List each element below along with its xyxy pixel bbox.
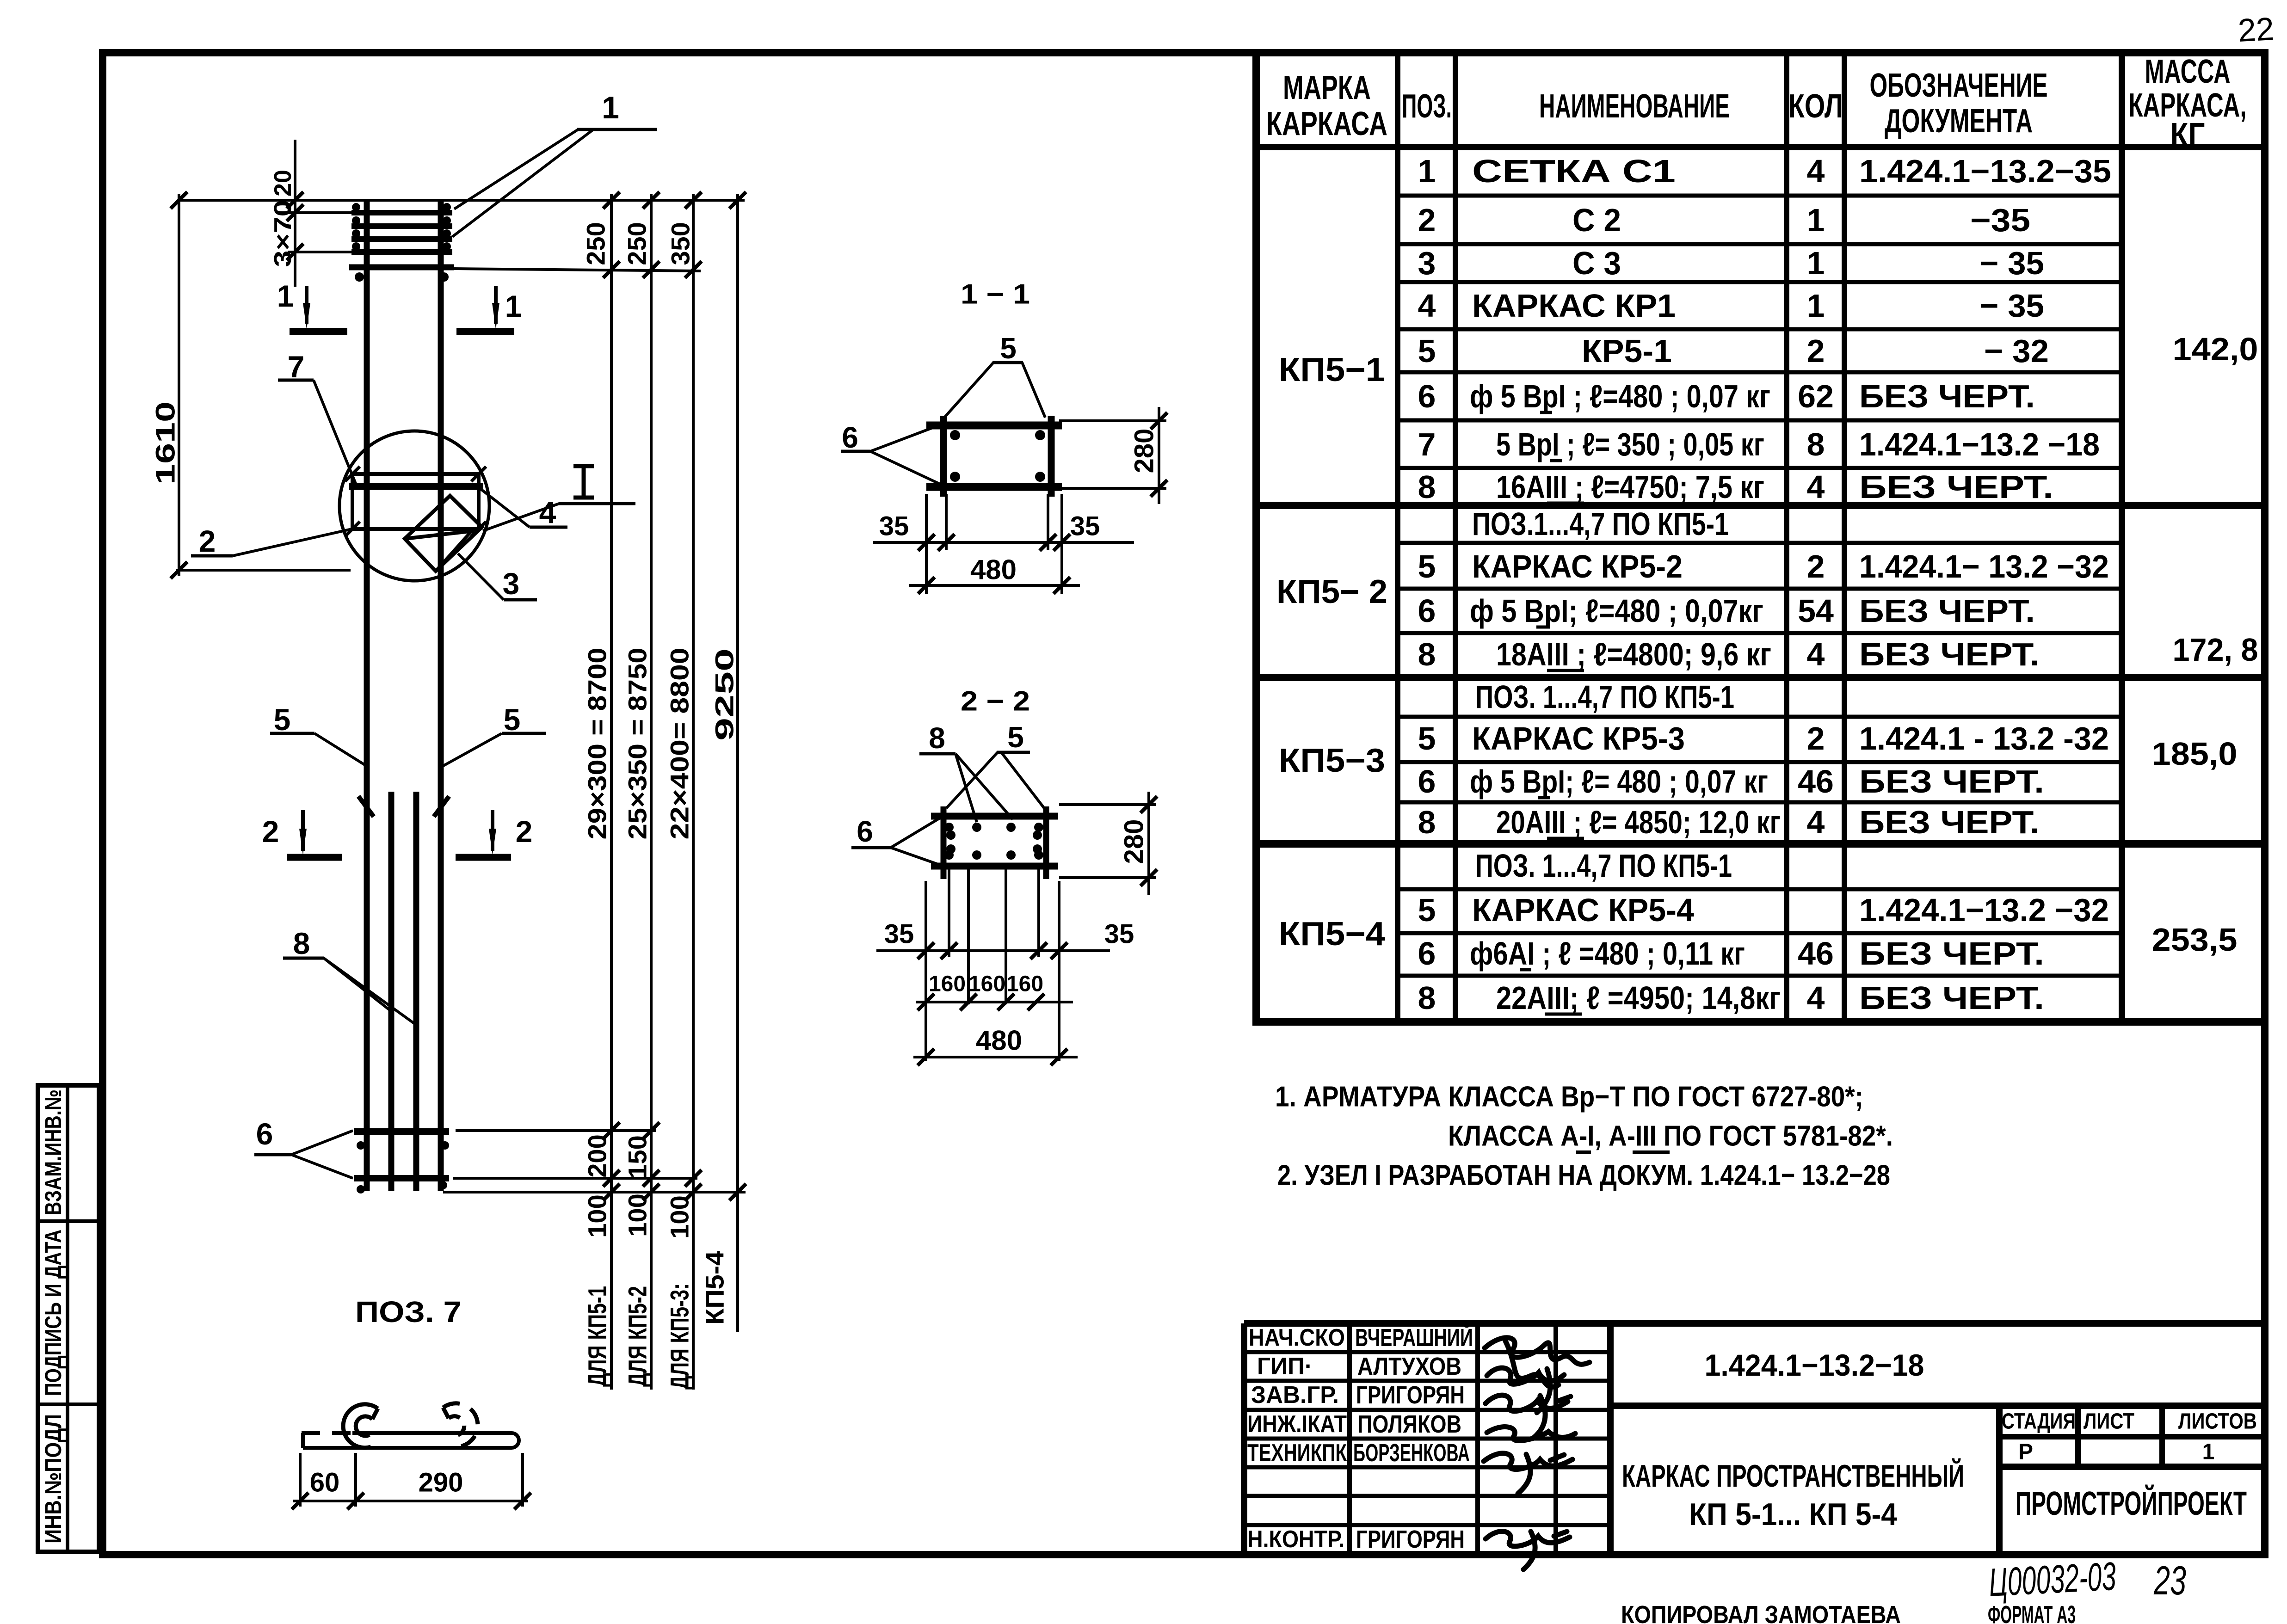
svg-text:35: 35 — [1070, 511, 1100, 541]
qty column values — [1798, 153, 1834, 1016]
svg-text:1.424.1− 13.2 −32: 1.424.1− 13.2 −32 — [1859, 548, 2109, 584]
svg-text:250: 250 — [623, 222, 652, 265]
svg-text:6: 6 — [256, 1117, 273, 1151]
first stirrup bar — [349, 265, 454, 271]
svg-text:БОРЗЕНКОВА: БОРЗЕНКОВА — [1353, 1439, 1470, 1467]
svg-text:100: 100 — [623, 1193, 652, 1236]
svg-text:2: 2 — [1807, 720, 1825, 757]
svg-text:ГИП·: ГИП· — [1257, 1353, 1313, 1380]
bottom dims of 1-1 — [873, 494, 1134, 594]
pos.7 short bar in node — [349, 483, 483, 490]
svg-text:4: 4 — [1807, 980, 1825, 1016]
svg-text:ПРОМСТРОЙПРОЕКТ: ПРОМСТРОЙПРОЕКТ — [2016, 1484, 2247, 1522]
mark column values — [1276, 351, 1387, 953]
svg-text:35: 35 — [1104, 919, 1134, 949]
svg-text:35: 35 — [879, 511, 909, 541]
bar break marks — [358, 796, 374, 817]
svg-text:8: 8 — [929, 721, 945, 755]
svg-text:2: 2 — [199, 524, 216, 558]
stirrup end dots — [355, 272, 364, 282]
underline of A-III — [1633, 1150, 1670, 1154]
svg-text:60: 60 — [310, 1468, 340, 1498]
svg-text:9250: 9250 — [710, 648, 739, 741]
svg-text:СЕТКА С1: СЕТКА С1 — [1472, 153, 1676, 189]
left margin stamp column — [38, 1085, 99, 1552]
top mesh wire end dots — [352, 203, 451, 251]
svg-text:КОЛ: КОЛ — [1788, 88, 1843, 125]
svg-text:ПОЗ. 7: ПОЗ. 7 — [355, 1295, 462, 1329]
svg-text:3: 3 — [503, 566, 520, 601]
svg-text:ИНВ.№ПОДЛ: ИНВ.№ПОДЛ — [40, 1414, 66, 1544]
svg-text:БЕЗ ЧЕРТ.: БЕЗ ЧЕРТ. — [1859, 593, 2035, 629]
svg-text:Н.КОНТР.: Н.КОНТР. — [1247, 1526, 1344, 1553]
svg-text:КГ: КГ — [2170, 117, 2205, 154]
svg-text:8: 8 — [1418, 469, 1436, 505]
dim 280 — [1059, 803, 1156, 806]
svg-text:ф 5 ВрI; ℓ= 480 ; 0,07 кг: ф 5 ВрI; ℓ= 480 ; 0,07 кг — [1470, 763, 1768, 800]
svg-text:1: 1 — [505, 289, 522, 323]
splice bar pos.8 left — [388, 792, 395, 1191]
svg-text:5: 5 — [1418, 892, 1436, 928]
section 1-1 right bar — [1048, 416, 1055, 497]
svg-text:ф 5 ВрI; ℓ=480 ; 0,07кг: ф 5 ВрI; ℓ=480 ; 0,07кг — [1470, 593, 1763, 629]
svg-text:КАРКАС ПРОСТРАНСТВЕННЫЙ: КАРКАС ПРОСТРАНСТВЕННЫЙ — [1622, 1458, 1964, 1494]
svg-text:ВЧЕРАШНИЙ: ВЧЕРАШНИЙ — [1355, 1323, 1473, 1352]
document column values — [1859, 153, 2111, 1016]
svg-text:КП5-4: КП5-4 — [700, 1251, 729, 1325]
svg-text:160: 160 — [968, 972, 1005, 997]
svg-text:253,5: 253,5 — [2152, 922, 2238, 958]
svg-text:62: 62 — [1798, 378, 1834, 414]
svg-text:КП5−1: КП5−1 — [1279, 351, 1385, 388]
svg-text:54: 54 — [1798, 593, 1834, 629]
svg-text:КАРКАС КР5-3: КАРКАС КР5-3 — [1472, 720, 1685, 757]
svg-text:КП5−4: КП5−4 — [1279, 916, 1385, 953]
hook dims — [293, 1453, 528, 1507]
svg-text:1: 1 — [1807, 245, 1825, 281]
svg-text:280: 280 — [1129, 429, 1159, 474]
svg-text:8: 8 — [1418, 804, 1436, 840]
section 2-2 bottom stirrup bar — [931, 863, 1058, 870]
svg-text:НАИМЕНОВАНИЕ: НАИМЕНОВАНИЕ — [1539, 88, 1730, 125]
pos column values — [1418, 153, 1436, 1016]
svg-text:46: 46 — [1798, 935, 1834, 972]
pos.7 hook solid — [343, 1404, 378, 1448]
svg-text:НАЧ.СКО: НАЧ.СКО — [1249, 1324, 1345, 1351]
section 1-1 corner bar dots — [950, 430, 1045, 482]
svg-text:5: 5 — [504, 702, 521, 737]
svg-text:3×70: 3×70 — [270, 200, 296, 267]
svg-text:16АIII ; ℓ=4750; 7,5 кг: 16АIII ; ℓ=4750; 7,5 кг — [1496, 469, 1764, 505]
svg-text:2 − 2: 2 − 2 — [961, 686, 1030, 717]
svg-text:КЛАССА А-I, А-III ПО ГОСТ 5: КЛАССА А-I, А-III ПО ГОСТ 5781-82*. — [1448, 1120, 1893, 1152]
vertical dimension line 8750 — [650, 194, 653, 1390]
svg-text:5: 5 — [274, 702, 291, 737]
svg-text:8: 8 — [1418, 980, 1436, 1016]
svg-text:ПОДПИСЬ И ДАТА: ПОДПИСЬ И ДАТА — [40, 1230, 66, 1396]
section mark 2-2 right — [456, 810, 532, 857]
svg-text:480: 480 — [976, 1025, 1022, 1056]
Roman numeral underlines in table — [1520, 412, 1584, 1014]
svg-text:МАССА: МАССА — [2145, 53, 2231, 90]
svg-text:6: 6 — [857, 815, 873, 848]
bottom mesh bars — [354, 1128, 449, 1135]
svg-text:2: 2 — [1418, 202, 1436, 238]
svg-text:25×350 = 8750: 25×350 = 8750 — [623, 648, 652, 840]
stage/sheet header — [2002, 1409, 2257, 1464]
svg-text:4: 4 — [1807, 469, 1825, 505]
label I detail name with leader — [573, 466, 594, 498]
svg-text:29×300 = 8700: 29×300 = 8700 — [583, 648, 612, 840]
svg-text:1: 1 — [2202, 1440, 2215, 1464]
svg-text:2: 2 — [1807, 333, 1825, 369]
svg-text:ЛИСТ: ЛИСТ — [2084, 1409, 2134, 1434]
section mark 1-1 left — [277, 279, 347, 332]
svg-text:ТЕХНИКПК: ТЕХНИКПК — [1247, 1439, 1347, 1466]
svg-text:8: 8 — [1807, 426, 1825, 462]
detail circle I — [339, 431, 489, 581]
top extension line — [179, 199, 745, 202]
vertical dimension line 9250 — [736, 194, 739, 1332]
svg-text:4: 4 — [1807, 804, 1825, 840]
svg-text:С 2: С 2 — [1572, 202, 1621, 238]
svg-text:− 35: − 35 — [1979, 245, 2044, 281]
svg-text:ф6АI ; ℓ =480 ; 0,11 кг: ф6АI ; ℓ =480 ; 0,11 кг — [1470, 935, 1745, 972]
svg-text:200: 200 — [583, 1134, 612, 1177]
signature squiggles — [1484, 1338, 1590, 1569]
section mark 1-1 right — [456, 286, 522, 332]
table header texts — [1266, 53, 2247, 154]
svg-text:4: 4 — [1418, 288, 1436, 324]
parts table grid — [1252, 53, 2265, 1022]
svg-text:20: 20 — [270, 170, 296, 197]
svg-text:АЛТУХОВ: АЛТУХОВ — [1357, 1353, 1461, 1380]
section mark 2-2 left — [262, 810, 342, 857]
svg-text:ф 5 ВрI ; ℓ=480 ; 0,07 кг: ф 5 ВрI ; ℓ=480 ; 0,07 кг — [1470, 378, 1770, 414]
svg-text:1.424.1−13.2−18: 1.424.1−13.2−18 — [1705, 1348, 1924, 1382]
column right chord bar pos.5 — [438, 200, 444, 1191]
svg-text:185,0: 185,0 — [2152, 736, 2238, 772]
svg-text:СТАДИЯ: СТАДИЯ — [2002, 1409, 2076, 1434]
svg-text:23: 23 — [2153, 1557, 2186, 1603]
svg-text:6: 6 — [1418, 593, 1436, 629]
svg-text:2: 2 — [262, 814, 279, 849]
svg-text:6: 6 — [1418, 935, 1436, 972]
section 1-1 bottom stirrup bar — [926, 483, 1062, 491]
bottom mesh dots — [357, 1141, 449, 1193]
svg-text:5: 5 — [1418, 720, 1436, 757]
mesh C3 diamond — [405, 496, 482, 571]
pos.7 hook dashed — [443, 1403, 478, 1447]
svg-text:БЕЗ ЧЕРТ.: БЕЗ ЧЕРТ. — [1859, 804, 2040, 840]
svg-text:ОБОЗНАЧЕНИЕ: ОБОЗНАЧЕНИЕ — [1870, 67, 2048, 104]
node mesh C2 rectangle — [352, 474, 479, 529]
vertical dimension line 8700 — [610, 194, 613, 1390]
svg-text:46: 46 — [1798, 763, 1834, 800]
underline of A-I — [1576, 1150, 1591, 1154]
section 2-2 bar dots — [944, 823, 1043, 860]
svg-text:КАРКАС КР5-2: КАРКАС КР5-2 — [1472, 548, 1683, 584]
svg-text:280: 280 — [1119, 819, 1149, 864]
svg-text:С 3: С 3 — [1572, 245, 1621, 281]
svg-text:3: 3 — [1418, 245, 1436, 281]
svg-text:160: 160 — [1006, 972, 1043, 997]
section 2-2 left bar — [941, 806, 947, 879]
svg-text:5: 5 — [1418, 333, 1436, 369]
signature table person names — [1353, 1323, 1473, 1553]
svg-text:5: 5 — [1000, 332, 1017, 365]
svg-text:КП5−3: КП5−3 — [1279, 742, 1385, 779]
svg-text:1: 1 — [1807, 288, 1825, 324]
rotated dim texts column 9250 — [700, 648, 739, 1325]
extension line at node level — [176, 569, 351, 572]
svg-text:ПОЗ. 1...4,7 ПО КП5-1: ПОЗ. 1...4,7 ПО КП5-1 — [1475, 679, 1734, 715]
dim 280 — [1059, 419, 1166, 422]
svg-text:2: 2 — [1807, 548, 1825, 584]
svg-text:22: 22 — [2237, 11, 2275, 49]
svg-text:ПОЗ.1...4,7 ПО КП5-1: ПОЗ.1...4,7 ПО КП5-1 — [1472, 506, 1729, 542]
svg-text:ПОЗ.: ПОЗ. — [1402, 88, 1452, 125]
svg-text:БЕЗ ЧЕРТ.: БЕЗ ЧЕРТ. — [1859, 636, 2040, 672]
svg-text:142,0: 142,0 — [2173, 331, 2258, 367]
svg-text:ДЛЯ КП5-2: ДЛЯ КП5-2 — [623, 1286, 652, 1387]
svg-text:− 32: − 32 — [1984, 333, 2049, 369]
svg-text:6: 6 — [1418, 763, 1436, 800]
svg-text:ПОЗ. 1...4,7 ПО КП5-1: ПОЗ. 1...4,7 ПО КП5-1 — [1475, 848, 1732, 884]
svg-text:160: 160 — [929, 972, 966, 997]
vertical dimension line 8800 — [692, 194, 695, 1390]
svg-text:ИНЖ.IКАТ: ИНЖ.IКАТ — [1247, 1411, 1347, 1438]
svg-text:1: 1 — [277, 279, 294, 313]
svg-text:ГРИГОРЯН: ГРИГОРЯН — [1356, 1526, 1465, 1553]
title block grid — [1244, 1323, 2265, 1554]
svg-text:480: 480 — [970, 554, 1017, 585]
svg-text:Р: Р — [2018, 1440, 2033, 1464]
svg-text:1.424.1−13.2 −18: 1.424.1−13.2 −18 — [1859, 426, 2100, 462]
svg-text:22АIII; ℓ =4950; 14,8кг: 22АIII; ℓ =4950; 14,8кг — [1496, 980, 1781, 1016]
svg-text:6: 6 — [1418, 378, 1436, 414]
svg-text:5: 5 — [1418, 548, 1436, 584]
dim line 20 / 3x70 — [294, 140, 296, 287]
svg-text:БЕЗ ЧЕРТ.: БЕЗ ЧЕРТ. — [1859, 378, 2035, 414]
svg-text:БЕЗ ЧЕРТ.: БЕЗ ЧЕРТ. — [1859, 980, 2044, 1016]
svg-text:18АIII ; ℓ=4800; 9,6 кг: 18АIII ; ℓ=4800; 9,6 кг — [1496, 636, 1771, 672]
svg-text:4: 4 — [1807, 153, 1825, 189]
dim line 1610 — [178, 194, 180, 576]
svg-text:5: 5 — [1007, 720, 1024, 754]
svg-text:БЕЗ ЧЕРТ.: БЕЗ ЧЕРТ. — [1859, 469, 2053, 505]
svg-text:КОПИРОВАЛ ЗАМОТАЕВА: КОПИРОВАЛ ЗАМОТАЕВА — [1621, 1601, 1901, 1624]
svg-text:−35: −35 — [1970, 202, 2030, 238]
svg-text:6: 6 — [842, 421, 858, 454]
svg-text:ВЗАМ.ИНВ.№: ВЗАМ.ИНВ.№ — [40, 1089, 66, 1215]
svg-text:КАРКАС КР1: КАРКАС КР1 — [1472, 288, 1676, 324]
svg-text:КР5-1: КР5-1 — [1582, 333, 1672, 369]
svg-text:Ц00032-03: Ц00032-03 — [1988, 1554, 2117, 1605]
rotated dim texts column 8700 — [581, 222, 612, 1387]
svg-text:ГРИГОРЯН: ГРИГОРЯН — [1356, 1381, 1465, 1409]
rotated dim texts column 8800 — [665, 222, 695, 1390]
section 1-1 top stirrup bar — [926, 422, 1062, 430]
section 2-2 top stirrup bar — [931, 813, 1058, 820]
svg-text:35: 35 — [884, 919, 914, 949]
svg-text:8: 8 — [1418, 636, 1436, 672]
svg-text:4: 4 — [1807, 636, 1825, 672]
rotated dim texts column 8750 — [623, 222, 652, 1387]
svg-text:МАРКА: МАРКА — [1283, 69, 1371, 106]
svg-text:1 − 1: 1 − 1 — [961, 279, 1030, 310]
svg-text:ДОКУМЕНТА: ДОКУМЕНТА — [1885, 103, 2033, 140]
splice bar pos.8 right — [413, 792, 419, 1191]
svg-text:1: 1 — [1418, 153, 1436, 189]
svg-text:22×400= 8800: 22×400= 8800 — [665, 648, 694, 840]
svg-text:− 35: − 35 — [1979, 288, 2044, 324]
svg-text:8: 8 — [293, 926, 310, 960]
svg-text:1610: 1610 — [151, 401, 181, 485]
svg-text:350: 350 — [666, 222, 695, 265]
svg-text:КП5− 2: КП5− 2 — [1276, 573, 1387, 610]
svg-text:ЛИСТОВ: ЛИСТОВ — [2178, 1409, 2257, 1434]
mass column values — [2152, 331, 2258, 958]
small extension lines for 3x70 dim — [288, 211, 355, 214]
svg-text:100: 100 — [583, 1194, 612, 1237]
svg-text:ДЛЯ КП5-3:: ДЛЯ КП5-3: — [665, 1283, 694, 1390]
column left chord bar pos.5 — [364, 200, 370, 1191]
stirrup level extension line — [454, 269, 701, 271]
svg-text:1.424.1−13.2 −32: 1.424.1−13.2 −32 — [1859, 892, 2109, 928]
svg-text:ФОРМАТ А3: ФОРМАТ А3 — [1988, 1601, 2076, 1624]
svg-text:1: 1 — [1807, 202, 1825, 238]
svg-text:5 ВрI ; ℓ= 350 ; 0,05 кг: 5 ВрI ; ℓ= 350 ; 0,05 кг — [1496, 426, 1764, 462]
svg-text:100: 100 — [665, 1195, 694, 1238]
dimension ticks — [603, 192, 746, 1200]
signature table role names — [1247, 1324, 1347, 1553]
svg-text:7: 7 — [1418, 426, 1436, 462]
svg-text:ПОЛЯКОВ: ПОЛЯКОВ — [1357, 1410, 1461, 1438]
svg-text:ЗАВ.ГР.: ЗАВ.ГР. — [1251, 1382, 1339, 1409]
svg-text:4: 4 — [539, 495, 556, 529]
name column values — [1470, 153, 1781, 1016]
svg-text:БЕЗ ЧЕРТ.: БЕЗ ЧЕРТ. — [1859, 935, 2044, 972]
svg-text:1. АРМАТУРА КЛАССА Вр−Т ПО: 1. АРМАТУРА КЛАССА Вр−Т ПО ГОСТ 6727-80*… — [1275, 1081, 1863, 1113]
bottom dims of 2-2 — [876, 869, 1110, 1061]
bottom extension lines — [456, 1129, 656, 1132]
svg-text:2: 2 — [516, 814, 533, 849]
top mesh C1 bars — [351, 213, 452, 252]
svg-text:1: 1 — [602, 90, 619, 125]
svg-text:1.424.1 - 13.2 -32: 1.424.1 - 13.2 -32 — [1859, 720, 2109, 757]
svg-text:КАРКАСА: КАРКАСА — [1266, 105, 1387, 142]
section 1-1 left bar — [940, 416, 947, 497]
svg-text:1.424.1−13.2−35: 1.424.1−13.2−35 — [1859, 153, 2111, 189]
svg-text:БЕЗ ЧЕРТ.: БЕЗ ЧЕРТ. — [1859, 763, 2044, 800]
svg-text:2. УЗЕЛ I РАЗРАБОТАН НА ДО: 2. УЗЕЛ I РАЗРАБОТАН НА ДОКУМ. 1.424.1− … — [1277, 1160, 1890, 1192]
svg-text:172, 8: 172, 8 — [2173, 632, 2258, 668]
pos.7 bar dashed tail — [302, 1431, 352, 1435]
svg-text:290: 290 — [419, 1468, 463, 1498]
svg-text:250: 250 — [581, 222, 610, 265]
svg-text:ДЛЯ КП5-1: ДЛЯ КП5-1 — [583, 1286, 612, 1387]
svg-text:КП 5-1... КП 5-4: КП 5-1... КП 5-4 — [1689, 1497, 1897, 1532]
svg-text:КАРКАС КР5-4: КАРКАС КР5-4 — [1472, 892, 1694, 928]
pos.7 bar body — [303, 1433, 519, 1448]
section 2-2 right bar — [1043, 806, 1049, 879]
svg-text:20АIII ; ℓ= 4850; 12,0 кг: 20АIII ; ℓ= 4850; 12,0 кг — [1496, 804, 1781, 840]
svg-text:150: 150 — [623, 1135, 652, 1178]
